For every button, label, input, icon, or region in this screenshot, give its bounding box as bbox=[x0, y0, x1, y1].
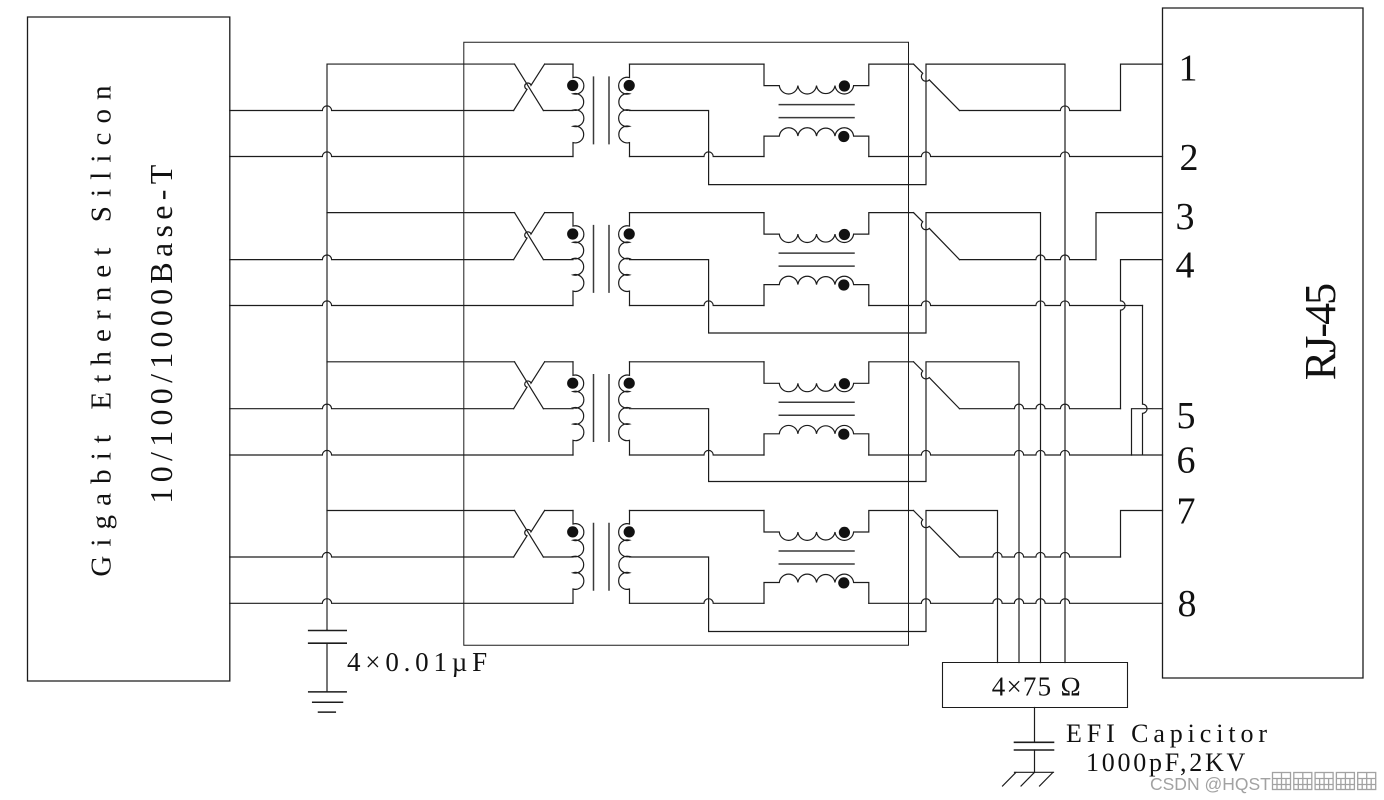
wire ch2 line diagonal with hop bbox=[914, 213, 960, 260]
wire ch1 X to primary centre bbox=[543, 110, 573, 112]
transformer T1 ch4 primary winding bbox=[573, 511, 584, 604]
resistor network R1 4x75ohm box bbox=[943, 663, 1128, 708]
dot ch4 primary polarity bbox=[567, 526, 578, 537]
dot ch3 primary polarity bbox=[567, 378, 578, 389]
wire ch3 bus feed bbox=[327, 361, 515, 363]
wire ch2 TXP from U1 bbox=[230, 255, 514, 260]
transformer T1 ch3 core bars bbox=[594, 375, 610, 442]
capacitor C1 4x0.01uF top lead bbox=[326, 629, 328, 631]
wire ch1 to RJ45 pin 1 bbox=[960, 106, 1121, 111]
transformer T1 ch2 secondary winding bbox=[619, 213, 630, 306]
capacitor C1 bottom lead bbox=[326, 643, 328, 692]
svg-text:6: 6 bbox=[1177, 440, 1196, 482]
svg-text:7: 7 bbox=[1177, 491, 1196, 533]
wire ch4 line diagonal with hop bbox=[914, 511, 960, 558]
capacitor C2 bottom lead bbox=[1034, 750, 1036, 772]
svg-text:4: 4 bbox=[1176, 245, 1195, 287]
ground GND1 earth symbol bbox=[309, 692, 347, 712]
crossover X ch1 rising diagonal with hop bbox=[514, 64, 545, 110]
capacitor C2 EFI top lead bbox=[1034, 708, 1036, 743]
dot ch1 primary polarity bbox=[567, 80, 578, 91]
wire ch3 TXP from U1 bbox=[230, 404, 514, 409]
wire ch1 TXP from U1 bbox=[230, 106, 514, 111]
crossover X ch3 rising diagonal with hop bbox=[514, 362, 545, 409]
wire ch2 centre tap return to R2 bbox=[630, 213, 1041, 663]
wire ch4 secondary top to choke bbox=[630, 510, 765, 512]
choke L2 bottom winding bbox=[764, 276, 869, 305]
svg-text:5: 5 bbox=[1177, 395, 1196, 437]
wire ch4 centre tap return to R4 bbox=[630, 511, 998, 663]
wire ch1 X to primary top bbox=[545, 63, 573, 65]
transformer T1 ch2 primary winding bbox=[573, 213, 584, 306]
wire ch1 to RJ45 pin 2 bbox=[869, 152, 1163, 157]
wire ch1 TXN from U1 bbox=[230, 152, 573, 157]
dot ch2 secondary polarity bbox=[624, 228, 635, 239]
dot ch4 choke bottom polarity bbox=[838, 577, 849, 588]
dot ch1 choke bottom polarity bbox=[838, 131, 849, 142]
wire ch4 X to primary centre bbox=[543, 556, 573, 558]
svg-text:2: 2 bbox=[1180, 137, 1199, 179]
wire ch4 to RJ45 pin 7 bbox=[960, 552, 1121, 557]
wire ch2 to RJ45 pin 3 bbox=[960, 255, 1097, 260]
wire ch2 secondary top to choke bbox=[630, 212, 765, 214]
wire ch2 bus feed bbox=[327, 212, 515, 214]
choke L1 top winding bbox=[764, 64, 914, 94]
choke L4 bottom winding bbox=[764, 574, 869, 603]
dot ch3 choke top polarity bbox=[839, 378, 850, 389]
dot ch2 primary polarity bbox=[567, 228, 578, 239]
watermark CJK glyph blocks bbox=[1273, 773, 1376, 790]
svg-text:1000pF,2KV: 1000pF,2KV bbox=[1086, 748, 1248, 777]
crossover X ch3 falling diagonal bbox=[515, 362, 544, 409]
wire ch3 to RJ45 pin 4 bbox=[960, 404, 1121, 409]
transformer module box T1 outline bbox=[464, 42, 909, 645]
dot ch2 choke bottom polarity bbox=[838, 279, 849, 290]
transformer T1 ch1 core bars bbox=[594, 77, 610, 144]
wire ch3 secondary top to choke bbox=[630, 361, 765, 363]
wire ch1 secondary top to choke bbox=[630, 63, 765, 65]
wire ch3 X to primary centre bbox=[543, 408, 573, 410]
choke L4 top winding bbox=[764, 511, 914, 541]
wire ch1 centre tap return to R1 bbox=[630, 64, 1066, 662]
capacitor C1 plates bbox=[309, 631, 347, 644]
wire ch4 to RJ45 pin 8 bbox=[869, 599, 1163, 604]
IC U1 Gigabit Ethernet Silicon box bbox=[28, 17, 230, 681]
svg-text:1: 1 bbox=[1179, 48, 1198, 90]
wire ch3 line diagonal with hop bbox=[914, 362, 960, 409]
wire ch4 TXN from U1 bbox=[230, 599, 573, 604]
svg-text:RJ-45: RJ-45 bbox=[1296, 284, 1345, 380]
wire ch4 X to primary top bbox=[545, 510, 573, 512]
choke L3 bottom winding bbox=[764, 425, 869, 455]
transformer T1 ch4 secondary winding bbox=[619, 511, 630, 604]
svg-text:3: 3 bbox=[1176, 196, 1195, 238]
crossover X ch2 falling diagonal bbox=[515, 213, 544, 260]
wire ch3 secondary bottom to choke bbox=[630, 450, 765, 455]
transformer T1 ch1 secondary winding bbox=[619, 64, 630, 156]
ground GND2 chassis symbol bbox=[1003, 772, 1054, 786]
svg-text:8: 8 bbox=[1178, 583, 1197, 625]
dot ch3 secondary polarity bbox=[624, 378, 635, 389]
crossover X ch2 rising diagonal with hop bbox=[514, 213, 545, 260]
wire ch1 secondary bottom to choke bbox=[630, 152, 765, 157]
dot ch3 choke bottom polarity bbox=[838, 429, 849, 440]
dot ch4 choke top polarity bbox=[839, 527, 850, 538]
wire ch4 TXP from U1 bbox=[230, 552, 514, 557]
choke L4 core bars bbox=[779, 551, 854, 564]
dot ch4 secondary polarity bbox=[624, 526, 635, 537]
svg-text:EFI Capicitor: EFI Capicitor bbox=[1066, 719, 1272, 748]
transformer T1 ch2 core bars bbox=[594, 226, 610, 293]
choke L3 core bars bbox=[779, 402, 854, 415]
dot ch1 secondary polarity bbox=[624, 80, 635, 91]
transformer T1 ch3 primary winding bbox=[573, 362, 584, 455]
wire ch2 X to primary centre bbox=[543, 259, 573, 261]
capacitor C2 plates bbox=[1015, 742, 1054, 750]
wire ch4 bus feed bbox=[327, 510, 515, 512]
wire ch4 secondary bottom to choke bbox=[630, 599, 765, 604]
svg-text:CSDN @HQST: CSDN @HQST bbox=[1150, 774, 1271, 794]
wire ch2 X to primary top bbox=[545, 212, 573, 214]
wire primary centre-tap bus vertical bbox=[327, 64, 515, 630]
transformer T1 ch3 secondary winding bbox=[619, 362, 630, 455]
crossover X ch1 falling diagonal bbox=[515, 64, 544, 110]
svg-text:10/100/1000Base-T: 10/100/1000Base-T bbox=[143, 159, 179, 503]
choke L3 top winding bbox=[764, 362, 914, 392]
svg-text:4×75 Ω: 4×75 Ω bbox=[992, 672, 1082, 702]
crossover X ch4 falling diagonal bbox=[515, 511, 544, 558]
connector J1 RJ-45 box bbox=[1163, 8, 1364, 678]
crossover X ch4 rising diagonal with hop bbox=[514, 511, 545, 558]
wire ch3 X to primary top bbox=[545, 361, 573, 363]
choke L2 core bars bbox=[779, 253, 854, 266]
choke L1 core bars bbox=[779, 105, 854, 118]
transformer T1 ch1 primary winding bbox=[573, 64, 584, 156]
choke L2 top winding bbox=[764, 213, 914, 243]
dot ch1 choke top polarity bbox=[839, 80, 850, 91]
wire ch2 secondary bottom to choke bbox=[630, 301, 765, 306]
svg-text:4×0.01µF: 4×0.01µF bbox=[347, 647, 492, 677]
choke L1 bottom winding bbox=[764, 128, 869, 157]
dot ch2 choke top polarity bbox=[839, 229, 850, 240]
transformer T1 ch4 core bars bbox=[594, 524, 610, 591]
svg-text:Gigabit Ethernet Silicon: Gigabit Ethernet Silicon bbox=[86, 76, 118, 576]
wire ch3 TXN from U1 bbox=[230, 450, 573, 455]
wire ch2 to RJ45 pin 6 bbox=[869, 301, 1143, 306]
wire ch3 to RJ45 pin 5 bbox=[869, 450, 1132, 455]
wire ch2 TXN from U1 bbox=[230, 301, 573, 306]
wire ch3 centre tap return to R3 bbox=[630, 362, 1020, 663]
wire ch1 line diagonal with hop bbox=[914, 64, 960, 110]
